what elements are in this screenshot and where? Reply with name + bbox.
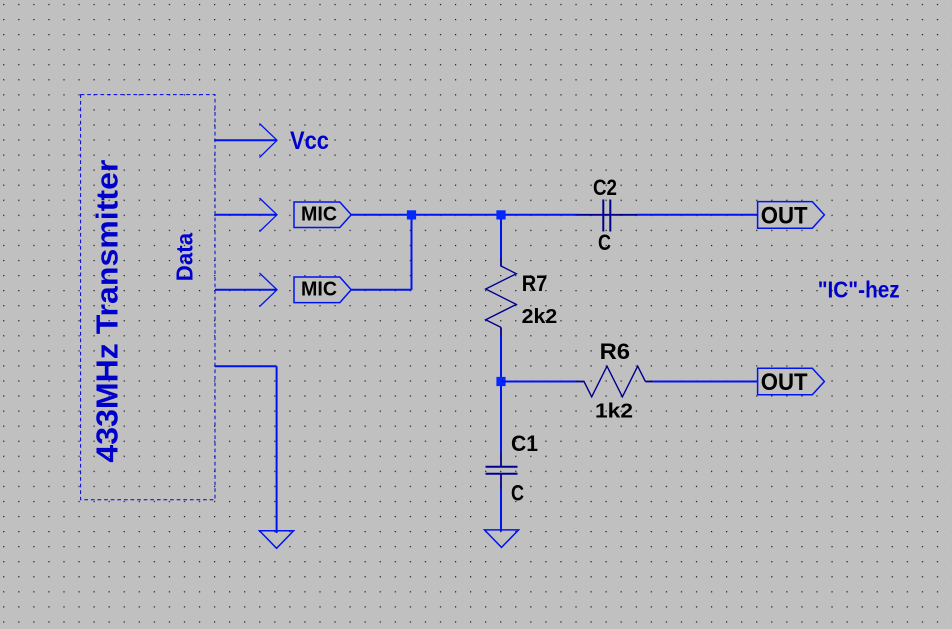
svg-text:C1: C1 xyxy=(511,431,538,456)
port MIC2 (pentagon label) xyxy=(294,277,351,303)
wire: MIC2 tip to riser xyxy=(351,289,411,291)
svg-text:Vcc: Vcc xyxy=(290,127,329,155)
capacitor C2 (vertical plates on main net) xyxy=(577,200,637,232)
svg-text:C2: C2 xyxy=(593,175,617,200)
svg-text:C: C xyxy=(511,480,524,505)
svg-text:R7: R7 xyxy=(522,271,548,296)
svg-text:C: C xyxy=(598,230,611,255)
svg-text:"IC"-hez: "IC"-hez xyxy=(818,277,900,303)
wire: pin4 down to ground xyxy=(276,366,278,533)
svg-text:433MHz Transmitter: 433MHz Transmitter xyxy=(90,159,124,462)
transmitter module outline (dashed box) xyxy=(81,95,215,500)
svg-text:MIC: MIC xyxy=(301,278,337,301)
svg-text:MIC: MIC xyxy=(301,203,337,226)
wire: J3 right to R6 xyxy=(501,381,577,383)
wire: J2 down to R7 xyxy=(500,215,502,259)
pin MIC1 (line with arrow chevron) xyxy=(215,198,277,232)
svg-text:OUT: OUT xyxy=(761,369,808,396)
junction J2 xyxy=(496,210,505,219)
wire: MIC1 to OUT1 (main horizontal net, y=214.8) xyxy=(351,214,757,216)
svg-text:2k2: 2k2 xyxy=(522,305,558,328)
svg-text:OUT: OUT xyxy=(761,203,808,230)
junction J3 xyxy=(496,377,505,386)
svg-text:1k2: 1k2 xyxy=(595,400,633,423)
port OUT1 (pentagon label) xyxy=(758,202,825,230)
wire: C1 to ground xyxy=(500,489,502,532)
wire: R7 down to J3 and on to C1 xyxy=(500,336,502,453)
svg-text:Data: Data xyxy=(171,233,197,281)
pin MIC2 (line with arrow chevron) xyxy=(215,273,277,307)
junction J1 xyxy=(407,210,416,219)
port OUT2 (pentagon label) xyxy=(758,368,825,396)
wire: R6 to OUT2 xyxy=(654,381,758,383)
ground symbol G2 xyxy=(485,530,519,548)
port MIC1 (pentagon label) xyxy=(294,202,351,228)
pin 4 (ground pin, plain line) xyxy=(215,365,277,367)
ground symbol G1 xyxy=(260,531,294,549)
pin Vcc (line with arrow chevron) xyxy=(215,124,277,158)
wire: riser up to main net xyxy=(411,215,413,290)
svg-text:R6: R6 xyxy=(600,339,630,364)
resistor R6 (horizontal zigzag) xyxy=(576,366,654,397)
capacitor C1 (horizontal plates) xyxy=(486,452,518,489)
resistor R7 (vertical zigzag) xyxy=(486,258,517,335)
